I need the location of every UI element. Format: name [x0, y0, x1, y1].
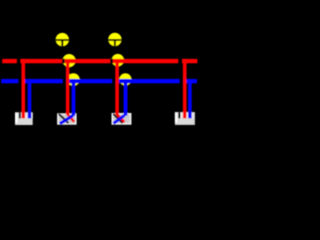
- wire live diagonal in X3: [117, 114, 124, 122]
- wire neutral drop 1: [28, 79, 32, 118]
- wire live drop 3: [115, 60, 119, 115]
- break in live bus at J1: [62, 59, 65, 64]
- lamp L1: [55, 33, 69, 47]
- wire neutral bus segment 1: [1, 79, 18, 83]
- wire neutral bus segment 4: [115, 79, 179, 83]
- wire neutral bus segment 5: [183, 79, 197, 83]
- wire neutral drop 4: [188, 79, 192, 118]
- wire neutral diagonal in X2: [60, 115, 74, 124]
- socket box X4: [175, 112, 195, 125]
- earth strap in X2: [59, 114, 69, 123]
- wire neutral diagonal in X3: [113, 115, 124, 123]
- wire live drop 2: [66, 60, 70, 115]
- socket box X3: [112, 113, 132, 125]
- wire neutral bus segment 3: [66, 79, 112, 83]
- wire live diagonal in X2: [68, 114, 75, 122]
- wire live bus segment 3: [65, 59, 111, 63]
- socket box X2: [57, 113, 77, 124]
- junction J4 on neutral bus: [119, 73, 131, 85]
- junction J1 on live bus: [63, 54, 76, 67]
- wire live drop 1: [22, 59, 26, 119]
- wire live bus segment 5: [182, 59, 197, 63]
- socket box X1: [15, 112, 33, 125]
- break in live bus at J2: [110, 59, 113, 64]
- wire live bus segment 1: [2, 59, 17, 63]
- junction J2 on live bus: [112, 54, 125, 67]
- wire live drop 4: [183, 59, 187, 118]
- wire neutral drop 2: [72, 79, 76, 116]
- wire live bus segment 4: [113, 59, 178, 63]
- wire neutral drop 3: [124, 79, 128, 116]
- wire live bus segment 2: [20, 59, 62, 63]
- lamp L2: [108, 33, 122, 47]
- wire neutral bus segment 2: [22, 79, 63, 83]
- junction J3 on neutral bus: [67, 73, 80, 86]
- earth strap in X3: [113, 114, 122, 123]
